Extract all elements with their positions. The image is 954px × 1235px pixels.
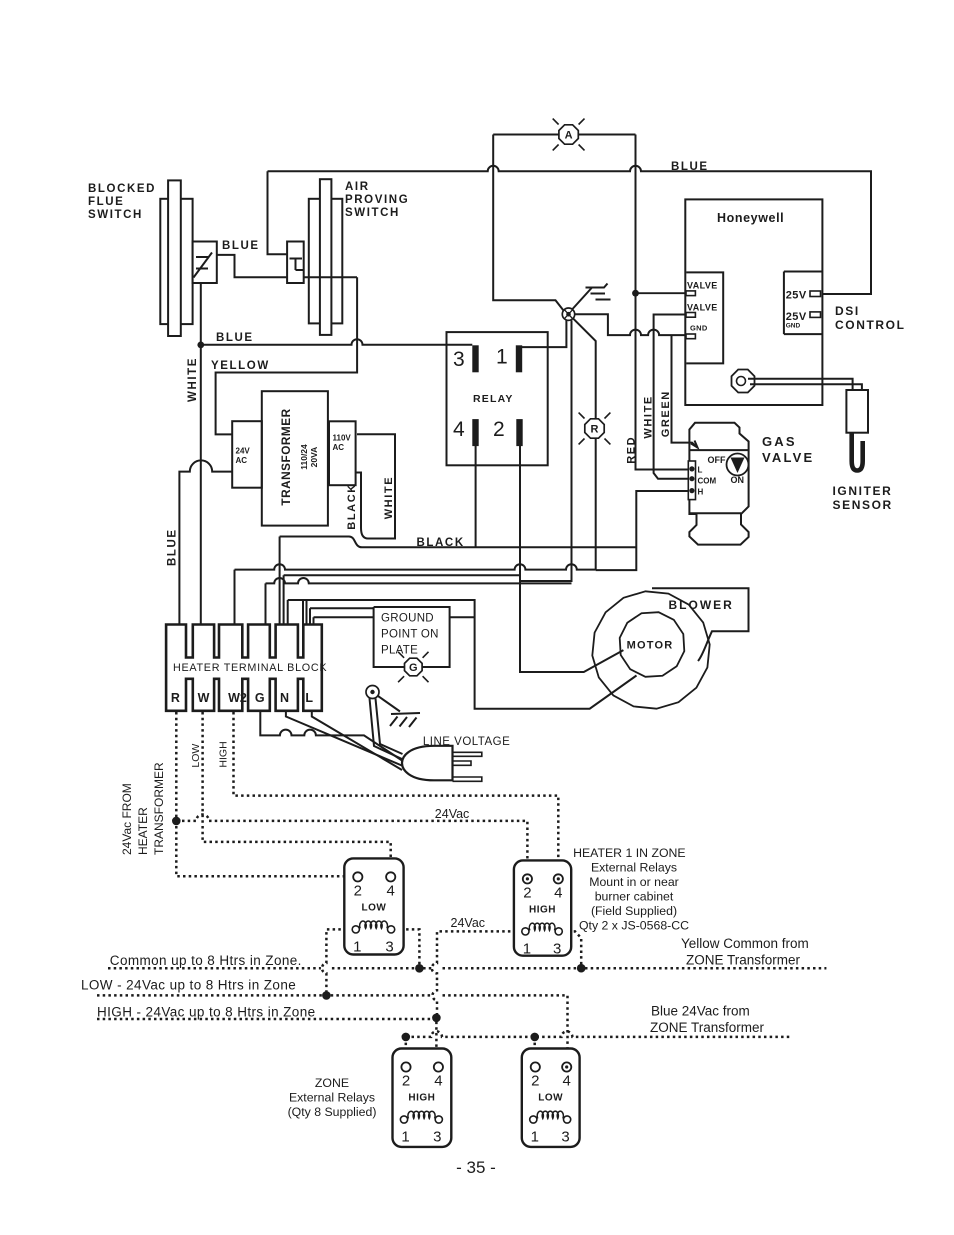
svg-text:W: W	[198, 691, 210, 705]
svg-text:2: 2	[523, 884, 531, 901]
svg-text:HEATER: HEATER	[136, 807, 150, 855]
svg-text:LOW: LOW	[538, 1093, 563, 1104]
svg-text:BLACK: BLACK	[417, 537, 465, 549]
svg-text:MOTOR: MOTOR	[627, 640, 674, 652]
svg-text:1: 1	[496, 346, 508, 369]
svg-text:R: R	[591, 423, 599, 435]
svg-text:TRANSFORMER: TRANSFORMER	[279, 408, 293, 505]
svg-text:HIGH: HIGH	[218, 741, 230, 767]
svg-text:RED: RED	[626, 436, 638, 464]
svg-text:G: G	[409, 662, 418, 674]
svg-text:PROVING: PROVING	[345, 194, 409, 206]
svg-text:HEATER 1 IN ZONE: HEATER 1 IN ZONE	[573, 846, 686, 860]
svg-text:ZONE Transformer: ZONE Transformer	[686, 953, 801, 968]
svg-text:3: 3	[561, 1129, 569, 1146]
svg-text:1: 1	[531, 1129, 539, 1146]
svg-text:BLOCKED: BLOCKED	[88, 183, 156, 195]
svg-text:LOW - 24Vac up to 8 Htrs in Zo: LOW - 24Vac up to 8 Htrs in Zone	[81, 978, 296, 993]
svg-text:A: A	[565, 129, 573, 141]
svg-text:3: 3	[433, 1129, 441, 1146]
svg-text:AC: AC	[236, 456, 248, 465]
svg-text:AIR: AIR	[345, 181, 370, 193]
svg-text:ZONE: ZONE	[315, 1076, 349, 1090]
svg-text:R: R	[171, 691, 180, 705]
svg-text:SWITCH: SWITCH	[345, 207, 400, 219]
svg-text:(Field Supplied): (Field Supplied)	[591, 904, 677, 918]
svg-text:24Vac: 24Vac	[451, 916, 486, 930]
svg-text:110/24: 110/24	[299, 444, 309, 470]
svg-text:BLUE: BLUE	[167, 528, 179, 566]
svg-text:LINE VOLTAGE: LINE VOLTAGE	[423, 736, 510, 748]
svg-text:110V: 110V	[333, 434, 352, 443]
svg-text:G: G	[255, 691, 265, 705]
svg-text:2: 2	[531, 1073, 539, 1090]
svg-text:3: 3	[553, 940, 561, 957]
svg-text:24Vac FROM: 24Vac FROM	[120, 783, 134, 855]
svg-text:HIGH: HIGH	[408, 1093, 435, 1104]
svg-text:4: 4	[387, 882, 395, 899]
svg-text:FLUE: FLUE	[88, 196, 124, 208]
svg-text:L: L	[305, 691, 313, 705]
svg-text:DSI: DSI	[835, 304, 860, 318]
svg-text:ZONE Transformer: ZONE Transformer	[650, 1020, 765, 1035]
svg-text:External Relays: External Relays	[591, 861, 677, 875]
svg-text:Qty 2 x JS-0568-CC: Qty 2 x JS-0568-CC	[579, 919, 689, 933]
svg-text:1: 1	[523, 940, 531, 957]
svg-text:SWITCH: SWITCH	[88, 209, 143, 221]
svg-text:WHITE: WHITE	[383, 476, 395, 519]
svg-text:2: 2	[493, 418, 505, 441]
svg-text:25V: 25V	[786, 311, 807, 323]
svg-text:BLOWER: BLOWER	[669, 598, 734, 612]
svg-text:3: 3	[453, 348, 465, 371]
svg-text:20VA: 20VA	[309, 447, 319, 468]
svg-text:HEATER TERMINAL BLOCK: HEATER TERMINAL BLOCK	[173, 662, 327, 674]
svg-text:YELLOW: YELLOW	[211, 360, 270, 372]
svg-text:TRANSFORMER: TRANSFORMER	[152, 762, 166, 855]
svg-text:VALVE: VALVE	[687, 281, 718, 291]
svg-text:External Relays: External Relays	[289, 1091, 375, 1105]
svg-text:1: 1	[401, 1129, 409, 1146]
svg-text:BLUE: BLUE	[222, 240, 260, 252]
svg-text:Honeywell: Honeywell	[717, 211, 784, 225]
svg-text:RELAY: RELAY	[473, 393, 514, 405]
svg-text:BLUE: BLUE	[216, 332, 254, 344]
svg-text:IGNITER: IGNITER	[833, 484, 893, 498]
svg-text:4: 4	[554, 884, 562, 901]
svg-text:CONTROL: CONTROL	[835, 318, 906, 332]
svg-text:GREEN: GREEN	[660, 390, 672, 437]
svg-text:4: 4	[453, 418, 465, 441]
svg-text:2: 2	[354, 882, 362, 899]
svg-text:HIGH: HIGH	[529, 904, 556, 915]
svg-text:VALVE: VALVE	[762, 450, 814, 465]
svg-text:LOW: LOW	[361, 902, 386, 913]
svg-text:(Qty 8 Supplied): (Qty 8 Supplied)	[288, 1105, 377, 1119]
svg-text:4: 4	[434, 1073, 442, 1090]
svg-text:Mount in or near: Mount in or near	[589, 875, 679, 889]
svg-text:VALVE: VALVE	[687, 303, 718, 313]
svg-text:AC: AC	[333, 443, 345, 452]
svg-text:WHITE: WHITE	[643, 395, 655, 438]
svg-text:1: 1	[353, 938, 361, 955]
svg-text:BLACK: BLACK	[346, 483, 358, 530]
svg-text:Yellow Common from: Yellow Common from	[681, 936, 809, 951]
svg-text:- 35 -: - 35 -	[456, 1158, 496, 1177]
svg-text:Blue 24Vac from: Blue 24Vac from	[651, 1004, 750, 1019]
svg-text:GAS: GAS	[762, 434, 797, 449]
svg-text:W2: W2	[228, 691, 247, 705]
svg-text:Common up to 8 Htrs in Zone.: Common up to 8 Htrs in Zone.	[110, 953, 302, 968]
svg-text:LOW: LOW	[190, 744, 202, 768]
svg-text:burner cabinet: burner cabinet	[595, 890, 674, 904]
svg-text:24Vac: 24Vac	[435, 807, 470, 821]
svg-text:H: H	[698, 488, 704, 497]
svg-text:4: 4	[563, 1073, 571, 1090]
svg-text:25V: 25V	[786, 290, 807, 302]
svg-text:WHITE: WHITE	[187, 357, 199, 402]
svg-text:COM: COM	[698, 477, 717, 486]
svg-text:POINT ON: POINT ON	[381, 629, 439, 641]
svg-text:OFF: OFF	[708, 455, 726, 465]
svg-text:GND: GND	[786, 323, 801, 330]
svg-text:BLUE: BLUE	[671, 161, 709, 173]
svg-text:GND: GND	[690, 324, 708, 333]
svg-text:N: N	[280, 691, 289, 705]
svg-text:24V: 24V	[236, 447, 251, 456]
svg-text:GROUND: GROUND	[381, 613, 434, 625]
svg-text:SENSOR: SENSOR	[833, 498, 893, 512]
svg-text:3: 3	[385, 938, 393, 955]
svg-text:PLATE: PLATE	[381, 645, 418, 657]
svg-text:L: L	[698, 466, 703, 475]
svg-text:HIGH - 24Vac up to 8 Htrs in Z: HIGH - 24Vac up to 8 Htrs in Zone	[97, 1005, 316, 1020]
svg-text:2: 2	[402, 1073, 410, 1090]
svg-text:ON: ON	[731, 475, 745, 485]
